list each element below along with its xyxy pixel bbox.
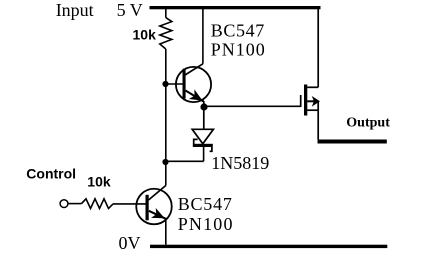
svg-text:Input: Input [56, 0, 94, 20]
svg-text:Control: Control [26, 166, 76, 182]
svg-text:10k: 10k [87, 174, 111, 190]
svg-text:PN100: PN100 [211, 39, 266, 59]
svg-text:Output: Output [346, 116, 390, 131]
svg-text:BC547: BC547 [211, 21, 265, 41]
svg-text:PN100: PN100 [178, 214, 234, 234]
svg-text:BC547: BC547 [178, 194, 233, 214]
svg-text:1N5819: 1N5819 [211, 153, 269, 173]
svg-text:0V: 0V [119, 233, 141, 253]
svg-text:5 V: 5 V [117, 0, 143, 20]
svg-text:10k: 10k [133, 27, 157, 43]
